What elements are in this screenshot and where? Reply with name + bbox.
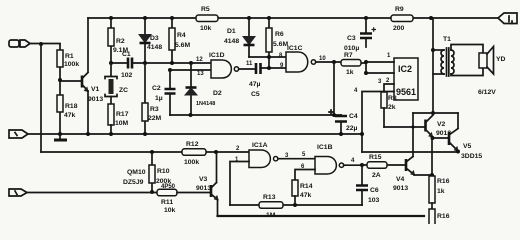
svg-text:5.6M: 5.6M xyxy=(175,42,190,49)
svg-text:10k: 10k xyxy=(164,207,176,214)
svg-text:QM10: QM10 xyxy=(127,169,146,176)
svg-text:4148: 4148 xyxy=(224,38,239,45)
svg-text:IC1D: IC1D xyxy=(209,52,225,59)
wire IC1B pin6 to R14 xyxy=(295,170,315,181)
pin 3 to R8 xyxy=(384,84,394,92)
svg-text:R4: R4 xyxy=(177,32,186,39)
wire V2 emitter to R16 xyxy=(431,138,433,176)
svg-text:C1: C1 xyxy=(122,51,131,58)
IC2 9561 xyxy=(354,53,418,152)
svg-text:3DD15: 3DD15 xyxy=(461,153,482,160)
svg-text:10M: 10M xyxy=(115,120,129,127)
piezo pickup ZC xyxy=(105,63,128,104)
diode D3 xyxy=(139,16,162,63)
svg-text:DZ5J9: DZ5J9 xyxy=(123,179,144,186)
capacitor C6 xyxy=(356,165,380,205)
transistor V2 xyxy=(384,115,451,137)
capacitor C2 xyxy=(152,68,176,115)
resistor R4 xyxy=(169,16,190,63)
svg-text:V1: V1 xyxy=(91,86,100,93)
svg-text:1N4148: 1N4148 xyxy=(196,101,215,107)
svg-text:R15: R15 xyxy=(369,154,382,161)
transformer T1 xyxy=(431,36,483,76)
wire IC1C out down to feedback line xyxy=(333,62,335,115)
capacitor C5 xyxy=(249,63,286,98)
svg-text:IC1A: IC1A xyxy=(252,142,268,149)
svg-text:R12: R12 xyxy=(186,141,199,148)
wire ground line to output stage xyxy=(362,151,458,153)
resistor R18 xyxy=(57,80,78,134)
connector X3 xyxy=(9,189,157,196)
resistor R10 xyxy=(123,152,171,192)
connector X1 (mic input plug) xyxy=(9,40,60,47)
svg-text:D1: D1 xyxy=(227,28,236,35)
transistor V3 xyxy=(196,152,218,216)
diode D1 xyxy=(224,16,255,57)
svg-text:R16: R16 xyxy=(437,213,450,220)
gate IC1C xyxy=(279,45,334,72)
node A junction xyxy=(39,42,43,46)
svg-text:200: 200 xyxy=(393,25,405,32)
svg-text:47k: 47k xyxy=(300,192,312,199)
wire oscillator node to IC1D pin12 xyxy=(145,62,211,64)
connector X2 xyxy=(9,130,28,138)
svg-text:R11: R11 xyxy=(161,199,173,206)
resistor R15 xyxy=(362,154,406,179)
resistor R11 xyxy=(157,184,211,214)
top supply rail xyxy=(88,17,498,19)
svg-text:9013: 9013 xyxy=(88,96,103,103)
svg-text:D3: D3 xyxy=(150,35,159,42)
diode D2 xyxy=(185,61,222,115)
svg-text:C3: C3 xyxy=(347,35,356,42)
svg-text:IC1C: IC1C xyxy=(287,45,303,52)
transistor V5 xyxy=(433,129,483,161)
svg-text:47k: 47k xyxy=(64,112,76,119)
svg-text:1µ: 1µ xyxy=(155,95,163,102)
svg-text:IC1B: IC1B xyxy=(317,144,333,151)
svg-text:R10: R10 xyxy=(157,168,170,175)
capacitor C4 xyxy=(329,110,358,134)
svg-text:11: 11 xyxy=(246,61,253,67)
ground rail (connector 2 net) xyxy=(28,133,362,135)
resistor R6 xyxy=(266,16,288,68)
svg-text:T1: T1 xyxy=(443,36,451,43)
svg-text:47µ: 47µ xyxy=(249,81,261,88)
resistor R9 xyxy=(391,6,413,32)
svg-text:R8: R8 xyxy=(388,95,397,102)
resistor R3 xyxy=(142,63,162,134)
ground xyxy=(54,132,67,140)
svg-text:R5: R5 xyxy=(201,6,210,13)
svg-text:R7: R7 xyxy=(344,52,353,59)
gate IC1A xyxy=(235,142,315,168)
svg-text:13: 13 xyxy=(197,71,204,77)
svg-text:V2: V2 xyxy=(437,121,446,128)
svg-text:4: 4 xyxy=(354,88,358,94)
wire IC1C pin8 xyxy=(249,56,286,58)
svg-text:12: 12 xyxy=(196,57,203,63)
resistor R7 xyxy=(334,52,366,76)
resistor R2 xyxy=(108,16,128,63)
capacitor C3 xyxy=(344,16,376,52)
resistor R14 xyxy=(292,180,313,205)
svg-text:22µ: 22µ xyxy=(346,125,358,132)
wire R13/R14/C6 line xyxy=(230,204,362,206)
svg-text:C6: C6 xyxy=(370,187,379,194)
lower control rail (net from node A) xyxy=(41,151,249,153)
svg-text:100k: 100k xyxy=(184,159,199,166)
capacitor C1 xyxy=(111,51,145,79)
svg-text:3: 3 xyxy=(378,79,382,85)
svg-text:10: 10 xyxy=(319,56,326,62)
svg-text:R16: R16 xyxy=(437,178,450,185)
gate IC1B xyxy=(301,144,362,174)
svg-text:ZC: ZC xyxy=(119,87,128,94)
svg-text:R17: R17 xyxy=(116,111,129,118)
wire osc feedback line xyxy=(170,114,341,116)
svg-text:R9: R9 xyxy=(395,6,404,13)
resistor R13 xyxy=(259,194,283,219)
svg-text:D2: D2 xyxy=(213,90,222,97)
wire V1 collector riser xyxy=(87,18,89,72)
svg-text:R18: R18 xyxy=(65,103,78,110)
svg-text:4P50: 4P50 xyxy=(161,184,176,190)
svg-text:YD: YD xyxy=(496,56,506,63)
svg-text:2: 2 xyxy=(236,146,240,152)
svg-text:C4: C4 xyxy=(349,113,358,120)
wire main vertical supply/T1 xyxy=(432,18,434,113)
svg-text:R13: R13 xyxy=(263,194,276,201)
resistor R5 xyxy=(196,6,218,32)
svg-text:5: 5 xyxy=(302,152,306,158)
svg-text:6/12V: 6/12V xyxy=(478,89,496,96)
svg-text:9561: 9561 xyxy=(396,87,416,97)
svg-text:V4: V4 xyxy=(396,176,405,183)
svg-text:4: 4 xyxy=(351,158,355,164)
svg-text:R6: R6 xyxy=(275,31,284,38)
svg-text:R1: R1 xyxy=(65,53,74,60)
svg-text:8: 8 xyxy=(279,53,283,59)
svg-text:2A: 2A xyxy=(372,172,381,179)
wire IC1D pin13 xyxy=(170,69,211,71)
junction V1 emitter xyxy=(86,132,90,136)
svg-text:IC2: IC2 xyxy=(398,64,412,74)
svg-text:1k: 1k xyxy=(346,69,354,76)
svg-text:2: 2 xyxy=(386,78,390,84)
connector X4 (battery plug) xyxy=(498,13,517,24)
node D junction (pin12 line / R3 / C1 / D3) xyxy=(143,61,147,65)
resistor R16 (upper) xyxy=(429,176,450,209)
svg-text:010µ: 010µ xyxy=(344,45,359,52)
svg-text:100k: 100k xyxy=(64,61,79,68)
node C junction (R2/C1/ZC) xyxy=(109,61,113,65)
svg-text:9013: 9013 xyxy=(393,185,408,192)
node B junction xyxy=(58,78,62,82)
svg-text:1: 1 xyxy=(387,53,391,59)
svg-text:22M: 22M xyxy=(148,115,162,122)
node collector rail xyxy=(431,111,435,115)
gate IC1D xyxy=(196,52,256,78)
resistor R12 xyxy=(182,141,206,166)
svg-text:9013: 9013 xyxy=(196,185,211,192)
svg-text:103: 103 xyxy=(368,197,380,204)
svg-text:R3: R3 xyxy=(150,106,159,113)
svg-text:10k: 10k xyxy=(200,25,212,32)
svg-text:R2: R2 xyxy=(116,38,125,45)
svg-text:1k: 1k xyxy=(437,188,445,195)
transistor V4 xyxy=(393,157,432,193)
bottom rail xyxy=(218,215,425,217)
wire IC1A pin1 xyxy=(230,162,249,206)
svg-text:R14: R14 xyxy=(300,183,313,190)
wire left bus down xyxy=(40,44,42,152)
svg-text:102: 102 xyxy=(121,72,133,79)
transistor V1 xyxy=(60,73,103,135)
svg-text:V5: V5 xyxy=(463,143,472,150)
svg-text:V3: V3 xyxy=(199,176,208,183)
svg-text:2k: 2k xyxy=(388,104,396,111)
pin 4 to ground line xyxy=(362,92,394,153)
svg-text:4148: 4148 xyxy=(147,44,162,51)
resistor R17 xyxy=(108,104,129,134)
svg-text:C2: C2 xyxy=(152,85,161,92)
resistor R16 (lower) xyxy=(429,209,450,225)
svg-text:1M: 1M xyxy=(266,212,276,219)
resistor R1 xyxy=(57,44,79,80)
svg-text:C5: C5 xyxy=(251,91,260,98)
resistor R8 xyxy=(381,92,397,127)
speaker YD xyxy=(478,47,506,97)
